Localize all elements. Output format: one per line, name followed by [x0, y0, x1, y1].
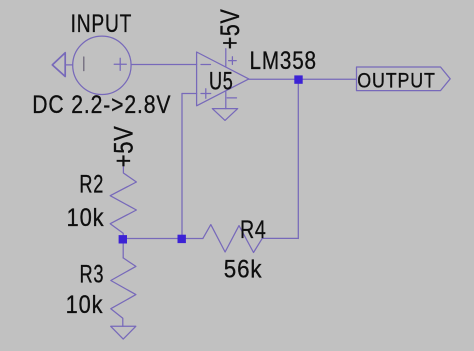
wire output to flag: [249, 78, 357, 80]
op-amp minus input mark: [201, 64, 211, 66]
svg-text:R3: R3: [80, 260, 105, 288]
svg-text:56k: 56k: [224, 256, 263, 284]
output flag shape: [357, 67, 451, 91]
op-amp V- pin wire: [225, 92, 227, 109]
resistor R2 zigzag: [110, 166, 136, 258]
svg-text:+5V: +5V: [215, 9, 245, 50]
junction J1 output: [294, 75, 302, 83]
svg-text:U5: U5: [209, 68, 234, 96]
op-amp V+ pin wire: [225, 49, 227, 67]
resistor R4 zigzag: [203, 225, 262, 253]
wire bottom horizontal: [123, 238, 203, 240]
svg-text:LM358: LM358: [250, 47, 317, 75]
wire output vertical down: [297, 79, 299, 238]
wire R4 to corner: [262, 237, 298, 239]
ground under op-amp: [212, 109, 237, 121]
wire source to op-amp inverting input: [131, 64, 196, 66]
junction J2 feedback: [178, 235, 186, 243]
source plus mark: [114, 58, 126, 70]
op-amp V- mark: [227, 97, 236, 99]
junction J3 divider: [119, 235, 127, 243]
resistor R3 zigzag: [111, 258, 136, 326]
svg-text:10k: 10k: [66, 291, 104, 319]
svg-text:OUTPUT: OUTPUT: [357, 68, 435, 92]
svg-text:R2: R2: [79, 171, 104, 199]
svg-text:DC 2.2->2.8V: DC 2.2->2.8V: [32, 91, 171, 119]
ground under R3: [111, 326, 136, 339]
op-amp plus input mark: [201, 89, 211, 98]
input port arrow: [52, 53, 65, 77]
svg-text:R4: R4: [240, 216, 267, 244]
svg-text:+5V: +5V: [108, 126, 138, 168]
wire feedback vertical: [181, 94, 183, 239]
wire arrow to source: [65, 64, 72, 66]
voltage source V1 circle: [73, 36, 131, 94]
op-amp U5 triangle: [197, 52, 249, 106]
wire op-amp + input stub: [182, 93, 197, 95]
svg-text:INPUT: INPUT: [71, 10, 133, 38]
op-amp V+ mark: [229, 57, 237, 65]
svg-text:10k: 10k: [67, 204, 105, 232]
source minus mark: [83, 57, 85, 71]
